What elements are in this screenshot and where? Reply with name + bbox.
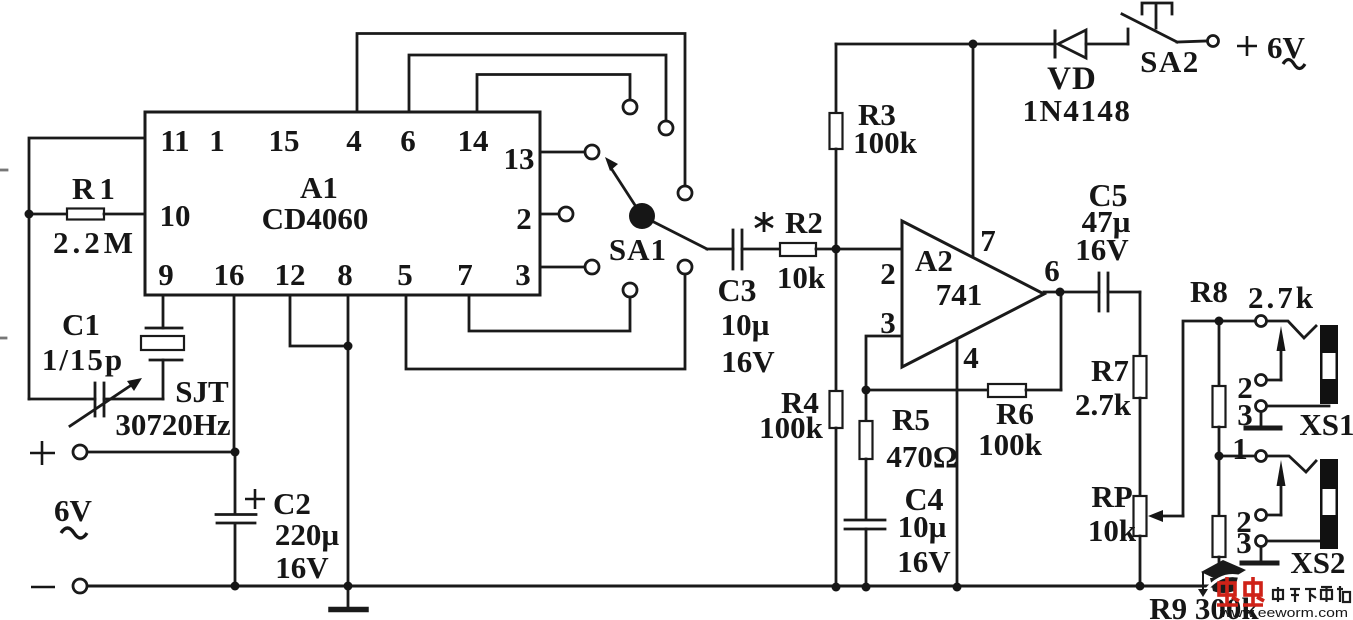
- svg-text:R1: R1: [72, 171, 120, 206]
- svg-text:A1: A1: [300, 170, 338, 205]
- svg-text:220µ: 220µ: [275, 517, 340, 552]
- svg-text:6: 6: [1044, 253, 1060, 288]
- svg-text:6: 6: [400, 123, 416, 158]
- svg-text:SJT: SJT: [175, 374, 229, 409]
- svg-text:16: 16: [214, 257, 245, 292]
- svg-text:100k: 100k: [978, 427, 1043, 462]
- svg-text:R8: R8: [1190, 274, 1228, 309]
- svg-text:10k: 10k: [1088, 513, 1137, 548]
- svg-text:3: 3: [515, 257, 531, 292]
- svg-text:1N4148: 1N4148: [1023, 93, 1132, 128]
- svg-text:1/15p: 1/15p: [42, 342, 124, 377]
- svg-text:A2: A2: [915, 243, 953, 278]
- svg-text:CD4060: CD4060: [262, 201, 369, 236]
- svg-text:C2: C2: [273, 486, 311, 521]
- svg-text:11: 11: [160, 123, 189, 158]
- svg-text:2.7k: 2.7k: [1248, 280, 1316, 315]
- svg-text:R6: R6: [996, 396, 1034, 431]
- svg-text:4: 4: [963, 340, 979, 375]
- svg-text:R5: R5: [892, 402, 930, 437]
- svg-text:16V: 16V: [721, 344, 775, 379]
- svg-text:2.2M: 2.2M: [53, 225, 137, 260]
- svg-text:C1: C1: [62, 307, 100, 342]
- svg-text:14: 14: [458, 123, 489, 158]
- svg-text:10µ: 10µ: [721, 307, 770, 342]
- svg-text:10k: 10k: [777, 260, 826, 295]
- svg-text:SA2: SA2: [1140, 44, 1200, 79]
- svg-text:R7: R7: [1091, 353, 1129, 388]
- svg-text:12: 12: [275, 257, 306, 292]
- svg-text:6V: 6V: [54, 493, 93, 528]
- svg-text:R2: R2: [785, 205, 823, 240]
- svg-text:1: 1: [209, 123, 225, 158]
- svg-text:2.7k: 2.7k: [1075, 387, 1132, 422]
- svg-text:RP: RP: [1091, 479, 1132, 514]
- svg-text:1: 1: [1232, 431, 1248, 466]
- svg-text:470Ω: 470Ω: [886, 439, 957, 474]
- svg-text:6V: 6V: [1267, 30, 1306, 65]
- svg-text:16V: 16V: [275, 550, 329, 585]
- svg-text:16V: 16V: [897, 544, 951, 579]
- svg-text:SA1: SA1: [609, 232, 667, 267]
- svg-text:15: 15: [269, 123, 300, 158]
- svg-text:7: 7: [457, 257, 473, 292]
- svg-text:3: 3: [880, 305, 896, 340]
- svg-text:100k: 100k: [759, 410, 824, 445]
- svg-text:8: 8: [337, 257, 353, 292]
- svg-text:XS1: XS1: [1299, 407, 1353, 442]
- svg-text:2: 2: [880, 256, 896, 291]
- svg-text:100k: 100k: [853, 125, 918, 160]
- svg-text:13: 13: [504, 141, 535, 176]
- svg-text:9: 9: [158, 257, 174, 292]
- svg-text:3: 3: [1237, 397, 1253, 432]
- svg-text:VD: VD: [1047, 61, 1097, 97]
- svg-text:C3: C3: [717, 272, 756, 308]
- svg-text:7: 7: [980, 223, 996, 258]
- svg-text:30720Hz: 30720Hz: [115, 407, 231, 442]
- svg-text:2: 2: [516, 201, 532, 236]
- svg-text:10: 10: [160, 198, 191, 233]
- svg-text:741: 741: [936, 277, 983, 312]
- svg-text:XS2: XS2: [1290, 545, 1345, 580]
- svg-text:4: 4: [346, 123, 362, 158]
- svg-text:5: 5: [397, 257, 413, 292]
- svg-text:3: 3: [1236, 525, 1252, 560]
- svg-text:www.eeworm.com: www.eeworm.com: [1219, 605, 1348, 620]
- svg-text:10µ: 10µ: [898, 509, 947, 544]
- svg-text:16V: 16V: [1075, 232, 1129, 267]
